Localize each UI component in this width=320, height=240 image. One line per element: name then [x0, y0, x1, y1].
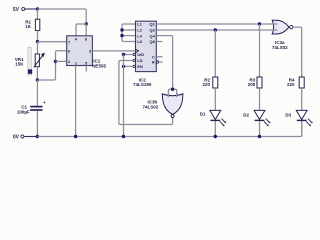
wire node to IC1 pins 6 and 2 — [37, 51, 66, 80]
svg-text:200: 200 — [248, 82, 256, 87]
svg-text:100µF: 100µF — [17, 109, 30, 114]
svg-text:Q2: Q2 — [149, 28, 155, 33]
node 5V/R1 junction — [36, 7, 39, 10]
wire EN to down bus — [124, 65, 134, 67]
wire R stub — [159, 61, 163, 63]
node IC3b input junction — [171, 88, 174, 91]
resistor R1 — [25, 9, 40, 42]
node Q1/R3 junction — [258, 22, 261, 25]
svg-text:EN: EN — [137, 64, 143, 69]
svg-text:L4: L4 — [137, 33, 142, 38]
svg-text:Q1: Q1 — [149, 22, 155, 27]
svg-text:L8: L8 — [137, 39, 142, 44]
svg-text:L1: L1 — [137, 22, 142, 27]
wire VR1 bottom to C1 node — [36, 67, 38, 80]
5V terminal — [13, 7, 25, 13]
LED D3 — [285, 110, 312, 136]
resistor R3 — [248, 77, 262, 110]
wire Q2 branch to R2 — [214, 30, 216, 77]
svg-text:1K: 1K — [25, 24, 32, 29]
wire 0V terminal to C1 junction — [24, 136, 38, 138]
LED D2 — [243, 110, 270, 136]
wire U/D-EN bus to 0V rail — [123, 55, 125, 137]
NOR gate IC3b 74LS02 (inverter, pointing down) — [143, 93, 183, 118]
wire junction to IC1 pin 7 — [38, 41, 67, 43]
wire Q4 to IC3b inputs — [156, 36, 177, 96]
wire U/D to down bus — [124, 54, 134, 56]
svg-text:+: + — [43, 100, 46, 105]
IC2 74LS190 counter body — [133, 21, 156, 87]
wire 5V rail to IC1 supply — [38, 9, 87, 24]
svg-text:LD: LD — [137, 58, 142, 63]
svg-text:L2: L2 — [137, 28, 142, 33]
node U/D junction — [122, 53, 125, 56]
node R1/VR1/pin7 junction — [36, 40, 39, 43]
VR1 adjustment slider widget — [28, 48, 32, 76]
node EN junction — [122, 65, 125, 68]
pin U/D bubble — [133, 53, 135, 55]
wire IC1 pin 3 to IC2 clock — [92, 50, 135, 52]
svg-text:220: 220 — [287, 82, 295, 87]
node IC1 pin4/pin8 supply junction — [85, 22, 88, 25]
wire IC1 pin 5 stub — [85, 66, 87, 72]
svg-text:D3: D3 — [285, 112, 291, 117]
svg-text:D1: D1 — [200, 112, 206, 117]
svg-text:R: R — [152, 60, 155, 65]
node bus/0V junction — [122, 135, 125, 138]
wire Q2 to NOR gate input — [156, 29, 277, 31]
svg-text:15K: 15K — [15, 62, 24, 67]
svg-text:Q8: Q8 — [149, 39, 155, 44]
wire 0V rail — [37, 121, 301, 136]
LED D1 — [200, 110, 227, 136]
pin EN bubble — [133, 65, 135, 67]
pin clock triangle — [136, 49, 139, 52]
node D1/0V junction — [214, 135, 217, 138]
node pin2 tap — [54, 60, 57, 63]
resistor R4 — [287, 77, 304, 110]
NOR gate IC3a 74LS02 — [272, 20, 293, 50]
node pin1/0V junction — [74, 135, 77, 138]
svg-text:220: 220 — [202, 82, 210, 87]
resistor R2 — [202, 77, 217, 110]
svg-text:U/D: U/D — [137, 52, 144, 57]
wire LD to IC3b output — [119, 61, 173, 125]
node VR1/C1/pin2-6 junction — [36, 78, 39, 81]
wire C stub — [156, 56, 162, 58]
node L2 bus junction — [120, 28, 123, 31]
wire tap to IC1 pin 2 — [56, 60, 67, 62]
svg-text:0V: 0V — [13, 134, 20, 140]
node Q2/R2 junction — [214, 28, 217, 31]
wire Q8 stub — [156, 41, 162, 43]
capacitor C1 — [17, 80, 46, 137]
op-amp IC1 NE555 body — [67, 36, 107, 69]
pin R bubble — [156, 61, 158, 63]
svg-text:74LS02: 74LS02 — [272, 45, 288, 50]
node C1/0V junction — [36, 135, 39, 138]
svg-text:Q4: Q4 — [149, 33, 155, 38]
svg-text:74LS190: 74LS190 — [133, 82, 152, 87]
node L4 bus junction — [120, 34, 123, 37]
wire 5V terminal to R1 junction — [25, 8, 38, 10]
0V terminal — [13, 134, 24, 140]
svg-text:NE555: NE555 — [92, 63, 106, 68]
variable resistor VR1 — [15, 42, 45, 68]
wire IC1 pin 1 to 0V rail — [75, 66, 77, 137]
pin LD bubble — [133, 59, 135, 61]
wire L1-L8 preset bus — [122, 24, 136, 42]
svg-text:74LS02: 74LS02 — [143, 105, 159, 110]
svg-text:5V: 5V — [13, 7, 20, 13]
wire Q1 branch to R3 — [259, 24, 261, 77]
svg-text:D2: D2 — [243, 112, 249, 117]
wire Q1 to NOR gate input — [156, 23, 277, 25]
node D2/0V junction — [258, 135, 261, 138]
wire supply bracket to pins 4 and 8 — [76, 24, 86, 36]
wire IC3a output to R4 — [293, 27, 302, 77]
